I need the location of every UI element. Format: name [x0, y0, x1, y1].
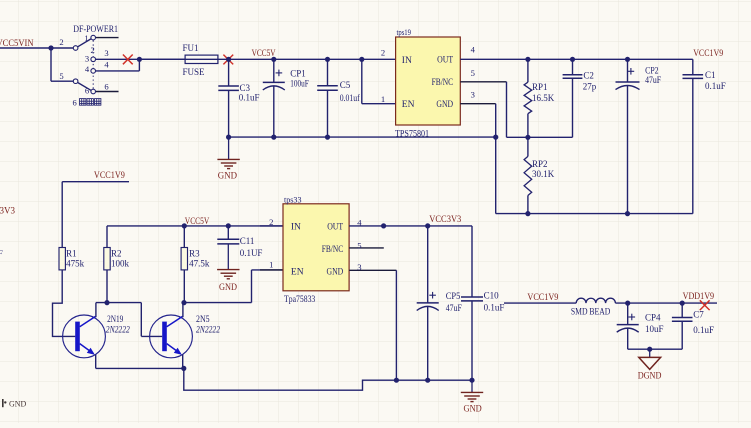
svg-text:47.5k: 47.5k	[189, 259, 210, 269]
svg-text:4: 4	[104, 60, 109, 70]
svg-text:TPS75801: TPS75801	[395, 128, 429, 138]
svg-text:0.1UF: 0.1UF	[240, 248, 263, 258]
svg-text:EN: EN	[291, 267, 304, 277]
svg-text:16.5K: 16.5K	[532, 93, 555, 103]
svg-text:0.1uF: 0.1uF	[239, 92, 260, 102]
svg-text:VCC1V9: VCC1V9	[693, 48, 723, 58]
svg-text:IN: IN	[291, 223, 301, 233]
svg-text:tps33: tps33	[284, 194, 302, 204]
svg-text:RP1: RP1	[532, 82, 548, 92]
svg-text:10uF: 10uF	[645, 324, 664, 334]
svg-text:C1: C1	[705, 70, 716, 80]
svg-text:4: 4	[357, 218, 362, 228]
svg-text:VCC5V: VCC5V	[252, 48, 276, 58]
svg-text:OUT: OUT	[437, 56, 453, 66]
svg-text:2N19: 2N19	[107, 314, 124, 324]
svg-text:47uF: 47uF	[446, 303, 462, 313]
svg-text:3: 3	[85, 54, 89, 64]
svg-text:DF-POWER1: DF-POWER1	[73, 24, 118, 34]
svg-text:C3V3: C3V3	[0, 206, 16, 216]
svg-text:3: 3	[357, 262, 361, 272]
svg-text:2N5: 2N5	[196, 314, 210, 324]
svg-text:VCC5VIN: VCC5VIN	[0, 38, 34, 48]
svg-text:0.01uf: 0.01uf	[340, 93, 360, 103]
svg-text:DGND: DGND	[638, 370, 662, 380]
svg-text:2: 2	[59, 37, 63, 47]
svg-text:OUT: OUT	[327, 223, 343, 233]
svg-text:6: 6	[73, 98, 77, 108]
svg-text:5: 5	[59, 71, 63, 81]
svg-text:FB/NC: FB/NC	[322, 245, 344, 255]
svg-text:GND: GND	[464, 404, 482, 414]
svg-text:CP2: CP2	[645, 65, 659, 75]
svg-text:GND: GND	[436, 100, 453, 110]
svg-text:FB/NC: FB/NC	[432, 78, 454, 88]
svg-text:CP1: CP1	[290, 69, 306, 79]
svg-text:6: 6	[104, 82, 109, 92]
svg-text:30.1K: 30.1K	[532, 169, 555, 179]
svg-text:C2: C2	[583, 71, 594, 81]
svg-text:3: 3	[471, 89, 475, 99]
svg-text:1: 1	[269, 260, 273, 270]
svg-text:2N2222: 2N2222	[196, 325, 220, 335]
svg-text:VCC1V9: VCC1V9	[527, 292, 558, 302]
svg-text:GND: GND	[218, 170, 238, 180]
svg-text:5: 5	[471, 68, 475, 78]
svg-text:2: 2	[269, 217, 273, 227]
svg-text:6: 6	[85, 86, 90, 96]
svg-text:R2: R2	[111, 249, 122, 259]
svg-text:VDD1V9: VDD1V9	[683, 291, 715, 301]
svg-text:4: 4	[471, 45, 476, 55]
svg-text:C5: C5	[340, 80, 351, 90]
svg-text:100uF: 100uF	[290, 79, 309, 89]
svg-text:3: 3	[104, 48, 108, 58]
svg-text:EN: EN	[402, 100, 415, 110]
svg-text:RP2: RP2	[532, 159, 548, 169]
svg-text:2: 2	[90, 45, 94, 55]
svg-text:2N2222: 2N2222	[106, 325, 130, 335]
svg-text:FUSE: FUSE	[183, 67, 206, 77]
svg-text:0.1uF: 0.1uF	[693, 325, 714, 335]
svg-text:GND: GND	[327, 267, 344, 277]
svg-text:CP5: CP5	[446, 291, 461, 301]
svg-text:SMD BEAD: SMD BEAD	[571, 306, 611, 316]
svg-text:1: 1	[84, 33, 88, 43]
svg-text:GND: GND	[9, 400, 27, 409]
svg-text:Tpa75833: Tpa75833	[284, 294, 316, 304]
svg-text:0.1uF: 0.1uF	[484, 303, 505, 313]
svg-text:100k: 100k	[111, 259, 130, 269]
svg-text:475k: 475k	[66, 259, 85, 269]
svg-text:R3: R3	[189, 249, 200, 259]
svg-text:2: 2	[381, 48, 385, 58]
svg-text:0.1uF: 0.1uF	[705, 81, 726, 91]
svg-text:CP4: CP4	[645, 312, 661, 322]
svg-text:IN: IN	[402, 56, 412, 66]
svg-text:FU1: FU1	[183, 43, 199, 53]
svg-text:5: 5	[357, 240, 361, 250]
svg-text:tps19: tps19	[397, 27, 412, 37]
svg-text:VCC1V9: VCC1V9	[94, 170, 125, 180]
svg-text:C10: C10	[484, 290, 500, 300]
svg-text:1: 1	[381, 94, 385, 104]
svg-text:R1: R1	[66, 249, 77, 259]
svg-text:VCC5V: VCC5V	[185, 216, 210, 226]
svg-text:GND: GND	[219, 282, 237, 292]
svg-text:C11: C11	[240, 236, 255, 246]
svg-text:27p: 27p	[583, 82, 597, 92]
svg-text:4: 4	[85, 64, 90, 74]
svg-text:C7: C7	[693, 310, 704, 320]
svg-text:47uF: 47uF	[645, 75, 661, 85]
svg-text:VCC3V3: VCC3V3	[429, 214, 461, 224]
